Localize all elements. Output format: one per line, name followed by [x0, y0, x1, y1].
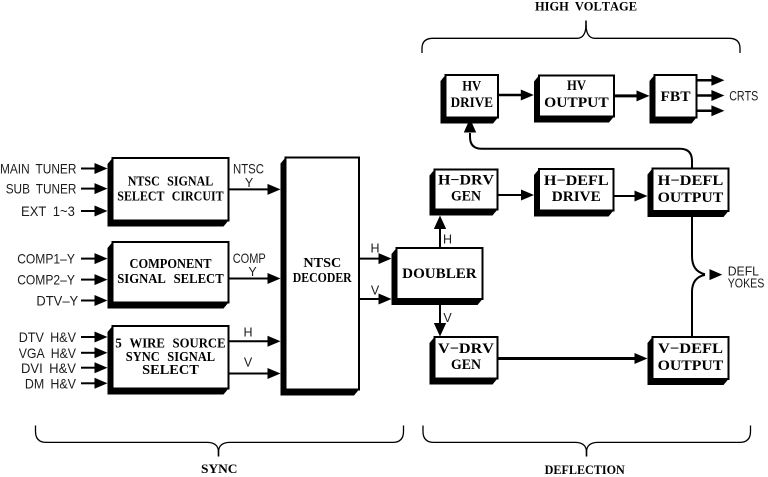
svg-text:Y: Y	[245, 176, 254, 190]
block NTSC SIGNAL SELECT CIRCUIT: body	[113, 158, 229, 221]
wire NTSC Y wire	[229, 188, 270, 190]
SYNC brace	[36, 426, 404, 452]
svg-text:DEFLECTION: DEFLECTION	[545, 462, 626, 477]
block NTSC DECODER: body	[286, 158, 360, 390]
svg-text:VGA H&V: VGA H&V	[19, 345, 77, 361]
arrowhead input SUB TUNER	[95, 183, 108, 194]
block DOUBLER: shadow	[392, 248, 483, 305]
arrowhead COMP Y wire	[268, 273, 281, 284]
arrowhead input COMP1-Y	[95, 253, 108, 264]
wire input DTV-Y	[81, 300, 97, 302]
block HV OUTPUT: shadow	[534, 76, 614, 123]
svg-text:V: V	[244, 356, 253, 370]
svg-text:MAIN TUNER: MAIN TUNER	[0, 161, 76, 177]
block V-DEFL OUTPUT: shadow	[648, 337, 729, 385]
arrowhead FBT to CRT 2	[711, 90, 724, 101]
svg-text:SYNC: SYNC	[201, 461, 238, 476]
arrowhead down into V-DRV GEN	[434, 323, 446, 337]
svg-text:NTSC: NTSC	[233, 161, 264, 177]
arrowhead input MAIN TUNER	[95, 163, 108, 174]
svg-text:H: H	[370, 242, 379, 256]
arrowhead HV OUTPUT to FBT	[637, 90, 650, 101]
arrowhead input DM H&V	[95, 378, 108, 389]
wire HV OUTPUT to FBT	[614, 94, 639, 97]
svg-text:H: H	[243, 325, 252, 339]
wire decoder H wire	[359, 258, 381, 260]
wire input EXT 1~3	[81, 210, 97, 212]
wire input COMP2-Y	[81, 279, 97, 281]
block DOUBLER: body	[397, 248, 483, 299]
arrowhead decoder H wire	[379, 253, 392, 264]
wire input DM H&V	[81, 382, 97, 384]
block HV OUTPUT: body	[539, 76, 614, 117]
svg-text:V: V	[371, 284, 380, 298]
arrowhead decoder V wire	[379, 294, 392, 305]
block H-DRV GEN: shadow	[430, 170, 498, 216]
arrowhead H-DRV GEN to H-DEFL DRIVE	[521, 190, 534, 201]
arrowhead H-DEFL DRIVE to H-DEFL OUTPUT	[635, 191, 648, 202]
block V-DRV GEN: shadow	[430, 337, 498, 385]
block COMPONENT SIGNAL SELECT: shadow	[108, 242, 229, 309]
svg-text:YOKES: YOKES	[728, 276, 765, 291]
arrowhead FBT to CRT 3	[711, 105, 724, 116]
svg-text:DVI H&V: DVI H&V	[21, 360, 77, 376]
svg-text:COMP2–Y: COMP2–Y	[17, 272, 75, 288]
svg-text:DTV–Y: DTV–Y	[36, 293, 78, 309]
svg-text:HIGH VOLTAGE: HIGH VOLTAGE	[535, 0, 637, 14]
HIGH VOLTAGE brace	[422, 26, 740, 54]
wire COMP Y wire	[229, 278, 270, 280]
block H-DEFL DRIVE: shadow	[534, 169, 614, 217]
wire decoder V wire	[359, 298, 381, 300]
svg-text:FBT: FBT	[661, 89, 691, 105]
block NTSC DECODER: shadow	[281, 158, 360, 396]
block V-DEFL OUTPUT: body	[653, 337, 729, 379]
arrowhead HV DRIVE to HV OUTPUT	[521, 90, 534, 101]
svg-text:DTV H&V: DTV H&V	[19, 329, 77, 345]
block 5 WIRE SOURCE SYNC SIGNAL SELECT: body	[113, 326, 229, 389]
svg-text:COMP: COMP	[233, 250, 266, 266]
wire input COMP1-Y	[81, 258, 97, 260]
arrowhead input DTV-Y	[95, 295, 108, 306]
wire HV DRIVE to HV OUTPUT	[498, 94, 523, 97]
block H-DRV GEN: body	[435, 170, 498, 210]
wire V-DEFL OUTPUT up to DEFL YOKES junction	[692, 275, 705, 337]
wire input MAIN TUNER	[81, 168, 97, 170]
wire input VGA H&V	[81, 352, 97, 354]
arrowhead up into HV DRIVE	[464, 119, 476, 133]
svg-text:Y: Y	[248, 265, 257, 279]
arrowhead NTSC Y wire	[268, 184, 281, 195]
wire feedback H-DEFL OUTPUT to HV DRIVE	[470, 133, 692, 169]
svg-text:DOUBLER: DOUBLER	[402, 266, 477, 282]
block H-DEFL OUTPUT: body	[653, 169, 729, 212]
block HV DRIVE: shadow	[441, 75, 499, 124]
arrowhead sync H wire	[268, 336, 281, 347]
wire H-DEFL DRIVE to H-DEFL OUTPUT	[614, 195, 637, 197]
block FBT: shadow	[650, 75, 697, 124]
wire input SUB TUNER	[81, 188, 97, 190]
arrowhead input VGA H&V	[95, 347, 108, 358]
wire H-DEFL OUTPUT down to DEFL YOKES junction	[692, 211, 705, 274]
wire input DTV H&V	[81, 336, 97, 338]
arrowhead input EXT 1~3	[95, 206, 108, 217]
wire H-DRV GEN to H-DEFL DRIVE	[498, 194, 524, 196]
wire V-DRV GEN to V-DEFL OUTPUT	[498, 357, 637, 360]
wire sync H wire	[229, 340, 270, 342]
svg-text:H: H	[443, 233, 452, 247]
wire V doubler down to V-DRV GEN	[439, 299, 441, 324]
arrowhead up into H-DRV GEN	[434, 216, 446, 230]
wire H doubler up to H-DRV GEN	[439, 228, 441, 248]
arrowhead FBT to CRT 1	[711, 75, 724, 86]
svg-text:NTSC SIGNALSELECT CIRCUIT: NTSC SIGNALSELECT CIRCUIT	[117, 175, 224, 205]
arrowhead input DTV H&V	[95, 332, 108, 343]
arrowhead DEFL YOKES	[710, 269, 723, 280]
wire input DVI H&V	[81, 367, 97, 369]
block H-DEFL DRIVE: body	[539, 169, 614, 211]
svg-text:COMPONENTSIGNAL SELECT: COMPONENTSIGNAL SELECT	[117, 257, 224, 287]
svg-text:V: V	[443, 311, 452, 325]
wire FBT to CRT 2	[697, 94, 714, 97]
arrowhead sync V wire	[268, 368, 281, 379]
block NTSC SIGNAL SELECT CIRCUIT: shadow	[108, 158, 229, 227]
block HV DRIVE: body	[446, 75, 499, 118]
block V-DRV GEN: body	[435, 337, 498, 379]
wire FBT to CRT 1	[697, 79, 714, 82]
svg-text:COMP1–Y: COMP1–Y	[17, 251, 75, 267]
svg-text:SUB TUNER: SUB TUNER	[6, 181, 77, 197]
block 5 WIRE SOURCE SYNC SIGNAL SELECT: shadow	[108, 326, 229, 395]
DEFLECTION brace	[423, 426, 751, 452]
svg-text:H−DEFLDRIVE: H−DEFLDRIVE	[544, 173, 609, 205]
arrowhead V-DRV GEN to V-DEFL OUTPUT	[635, 353, 648, 364]
svg-text:DM H&V: DM H&V	[25, 375, 77, 391]
arrowhead input COMP2-Y	[95, 274, 108, 285]
svg-text:CRTS: CRTS	[729, 89, 758, 104]
svg-text:V−DEFLOUTPUT: V−DEFLOUTPUT	[658, 341, 724, 374]
svg-text:EXT 1~3: EXT 1~3	[21, 203, 75, 219]
svg-text:H−DEFLOUTPUT: H−DEFLOUTPUT	[658, 173, 724, 206]
block H-DEFL OUTPUT: shadow	[648, 169, 729, 218]
arrowhead input DVI H&V	[95, 362, 108, 373]
block FBT: body	[655, 75, 697, 118]
wire FBT to CRT 3	[697, 110, 714, 113]
block COMPONENT SIGNAL SELECT: body	[113, 242, 229, 303]
wire sync V wire	[229, 373, 270, 375]
